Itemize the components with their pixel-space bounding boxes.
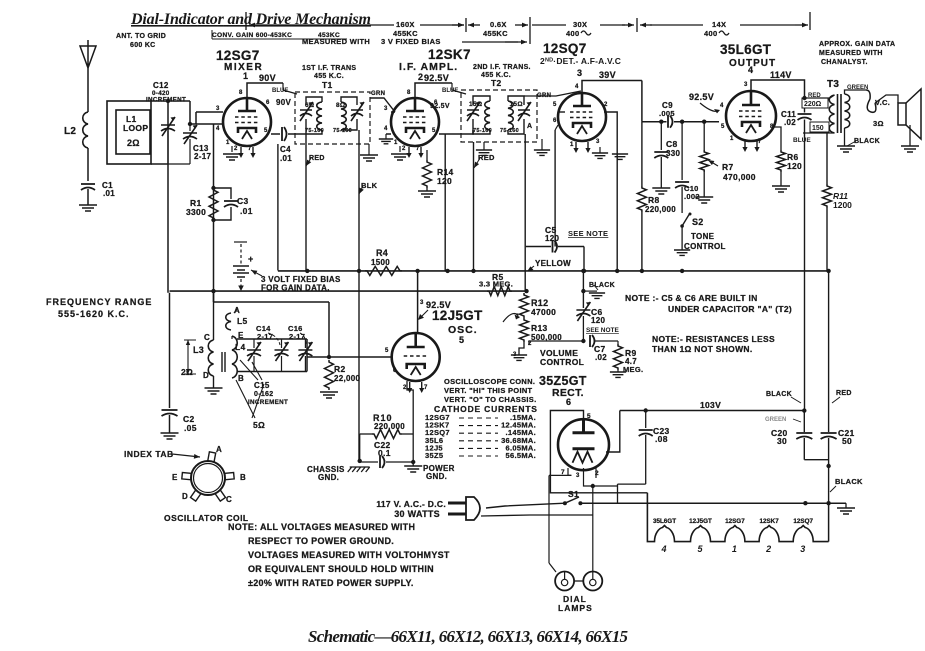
svg-text:12SK7: 12SK7 (759, 518, 779, 525)
junction (445, 269, 449, 273)
dim arrow left (249, 24, 262, 26)
wire to right lamp (592, 486, 594, 571)
wire 12J5 plate up (417, 271, 419, 333)
dim tick (636, 18, 638, 32)
junction C8 (659, 120, 663, 124)
wire loop bottom ext (168, 163, 190, 165)
svg-text:1: 1 (394, 140, 398, 146)
12SQ7 heater pins (576, 142, 588, 150)
svg-text:ANT. TO GRID: ANT. TO GRID (116, 33, 166, 40)
svg-text:.01: .01 (280, 154, 292, 163)
wire (617, 370, 619, 372)
arrow battery (251, 270, 262, 276)
svg-text:C4: C4 (280, 145, 291, 154)
svg-text:400: 400 (566, 29, 579, 38)
svg-text:T1: T1 (322, 80, 333, 90)
arrow red c21 (832, 397, 840, 403)
wire pin7 (568, 468, 571, 475)
wire (803, 411, 805, 432)
svg-text:D: D (182, 492, 188, 501)
svg-text:GREEN: GREEN (765, 417, 786, 423)
arrow R7 wiper (708, 160, 718, 166)
wire C13 bottom (189, 139, 191, 164)
wire C1 to ground (87, 189, 89, 205)
wire 12SG7 plate out (271, 133, 280, 135)
svg-text:SEE NOTE: SEE NOTE (586, 327, 620, 334)
wire (281, 339, 283, 348)
svg-text:3Ω: 3Ω (873, 119, 884, 128)
wire L3 to gnd (213, 376, 215, 388)
ground 12SQ7 heater (592, 153, 608, 158)
svg-text:3: 3 (384, 106, 388, 112)
svg-text:4: 4 (748, 65, 753, 75)
wire C23 down (645, 435, 647, 484)
wire black stub (583, 290, 597, 292)
svg-text:±20% WITH RATED POWER SUPPLY.: ±20% WITH RATED POWER SUPPLY. (248, 578, 414, 588)
ground T2 (476, 150, 492, 155)
wire R10 left down (359, 434, 361, 461)
resistor R9 (614, 344, 623, 370)
svg-text:120: 120 (787, 161, 802, 171)
junction (582, 269, 586, 273)
svg-text:330: 330 (666, 149, 680, 158)
capacitor C9 (668, 116, 673, 128)
svg-text:R4: R4 (376, 248, 388, 258)
core L3L4 (222, 352, 225, 372)
wire T1 prim bottom (310, 130, 322, 134)
tube 12SQ7 det (558, 93, 606, 141)
speaker (898, 103, 906, 125)
svg-text:4: 4 (216, 126, 220, 132)
svg-text:455KC: 455KC (483, 29, 508, 38)
dim tick tall (529, 17, 531, 44)
leader dashes (459, 447, 498, 449)
wire to left lamp (548, 475, 550, 563)
wire antenna to L2 (87, 68, 89, 112)
svg-text:0.6X: 0.6X (490, 20, 507, 29)
wire to C3 (214, 188, 232, 199)
svg-text:INCREMENT: INCREMENT (248, 399, 288, 406)
svg-text:5: 5 (264, 128, 268, 134)
wire C7 to R9 (595, 340, 618, 342)
svg-text:39V: 39V (599, 70, 616, 80)
coil L5 (226, 313, 231, 330)
svg-text:6: 6 (553, 118, 557, 124)
wire (599, 147, 601, 153)
svg-text:90V: 90V (276, 98, 291, 107)
wire T2 prim bottom (473, 119, 490, 134)
leader dashes (459, 440, 498, 442)
svg-text:2-17: 2-17 (194, 152, 211, 161)
label 150 box (810, 122, 829, 132)
arrow red2 (474, 158, 480, 168)
svg-text:C12: C12 (153, 81, 169, 90)
leader dashes (459, 425, 498, 427)
capacitor C11 (798, 114, 812, 120)
coil T3 primary (829, 95, 834, 133)
switch S2 (682, 213, 690, 226)
svg-text:220Ω: 220Ω (804, 101, 822, 108)
dim arrow (515, 24, 528, 26)
dimension line (532, 24, 566, 26)
wire (549, 563, 556, 572)
junction (826, 501, 830, 505)
ground C8 (652, 188, 670, 194)
heater socket string (647, 493, 828, 542)
junction (826, 269, 830, 273)
svg-text:SEE NOTE: SEE NOTE (568, 229, 608, 238)
junction (471, 269, 475, 273)
svg-text:30: 30 (777, 436, 787, 446)
svg-text:R13: R13 (531, 323, 548, 333)
wire R10 right down (412, 434, 414, 462)
wire C8 to gnd (660, 157, 662, 188)
svg-text:220,000: 220,000 (645, 205, 676, 214)
svg-text:A: A (216, 445, 222, 454)
svg-text:MEASURED WITH: MEASURED WITH (819, 50, 883, 57)
svg-text:NOTE:- RESISTANCES LESS: NOTE:- RESISTANCES LESS (652, 334, 775, 344)
wire (368, 144, 370, 155)
svg-text:L4: L4 (235, 342, 246, 352)
wire C3 bottom (214, 207, 232, 220)
capacitor C3 (224, 201, 238, 207)
svg-text:3: 3 (576, 473, 580, 479)
transformer T3 core (838, 94, 842, 133)
svg-text:3: 3 (577, 68, 582, 78)
svg-text:2: 2 (402, 146, 406, 152)
resistor R4 (365, 266, 402, 275)
svg-text:600 KC: 600 KC (130, 42, 156, 49)
wire heater right edge (828, 503, 830, 541)
wire to gnd (845, 503, 847, 508)
svg-text:12J5GT: 12J5GT (689, 518, 712, 525)
svg-text:VERT. "O" TO CHASSIS.: VERT. "O" TO CHASSIS. (444, 395, 536, 404)
variable capacitor osc (247, 342, 261, 361)
wire (167, 131, 169, 164)
wire T2 prim top (473, 96, 490, 105)
ground (612, 154, 628, 159)
wire down to R2 line (328, 302, 330, 357)
svg-text:OSCILLOSCOPE CONN.: OSCILLOSCOPE CONN. (444, 377, 535, 386)
wire pin4 (386, 133, 391, 135)
svg-text:OR EQUIVALENT SHOULD HOLD WITH: OR EQUIVALENT SHOULD HOLD WITHIN (248, 564, 434, 574)
dim arrow (795, 24, 808, 26)
capacitor C7 (590, 335, 595, 347)
wire (804, 459, 828, 461)
wire cord lower2 (530, 514, 593, 516)
svg-text:E: E (172, 473, 178, 482)
svg-text:150: 150 (812, 125, 824, 132)
wire C10 branch (681, 122, 683, 180)
svg-text:CONTROL: CONTROL (540, 357, 584, 367)
leader dashes (459, 417, 498, 419)
resistor R6 (777, 150, 786, 172)
arrow R13 wiper (503, 314, 518, 322)
svg-text:BLUE: BLUE (793, 137, 811, 144)
dim arrow (622, 24, 634, 26)
wire C21 line (828, 272, 830, 432)
pointer C16 (300, 333, 306, 345)
wire 12SK7 plate to T2 (439, 130, 473, 134)
wire L2 to C1 (87, 148, 89, 181)
dim arrow (468, 24, 480, 26)
svg-text:5Ω: 5Ω (253, 420, 265, 430)
ground 12SG7 heater (223, 154, 241, 160)
variable capacitor C14 (275, 342, 289, 361)
wire T1 sec bottom (341, 119, 357, 130)
svg-text:GND.: GND. (426, 472, 447, 481)
wire (213, 291, 215, 302)
wire T1 down RED (305, 119, 307, 271)
svg-text:TONE: TONE (691, 232, 715, 241)
capacitor C23 (639, 430, 653, 436)
svg-text:.01: .01 (103, 189, 115, 198)
wire C10 to S2 (681, 187, 683, 213)
svg-text:35Z5GT: 35Z5GT (539, 374, 587, 388)
coil L3 (208, 340, 213, 376)
wire pin5 (558, 111, 565, 113)
wire 12SQ7 pin2 down (604, 112, 617, 272)
svg-text:GRN: GRN (371, 91, 385, 97)
wire spk gnd (909, 125, 911, 146)
svg-text:3: 3 (216, 106, 220, 112)
svg-text:1: 1 (730, 136, 734, 142)
svg-text:6: 6 (393, 368, 397, 374)
wire 220ohm line down 2 (804, 120, 806, 411)
variable capacitor C16 (298, 342, 312, 361)
svg-text:CONTROL: CONTROL (684, 242, 726, 251)
coil T3 secondary (845, 94, 850, 128)
wire R13 to C7 (529, 341, 583, 345)
svg-text:7: 7 (416, 146, 420, 152)
svg-text:C3: C3 (237, 196, 248, 206)
plug body (466, 497, 480, 520)
ground R13 (511, 355, 527, 360)
svg-text:5: 5 (698, 544, 704, 554)
svg-text:C: C (226, 495, 232, 504)
wire (483, 142, 485, 150)
dial lamp 2 (583, 572, 602, 591)
svg-text:455 K.C.: 455 K.C. (314, 73, 344, 80)
wire (703, 122, 705, 150)
svg-text:35L6GT: 35L6GT (653, 518, 676, 525)
arrow index tab (172, 454, 200, 457)
svg-text:.005: .005 (659, 109, 675, 118)
svg-text:7: 7 (248, 146, 252, 152)
dim arrow (505, 41, 527, 43)
ground L3 (205, 388, 223, 394)
leader dashes (459, 455, 498, 457)
arrow to pin4 (700, 103, 718, 111)
svg-text:12SK7: 12SK7 (428, 47, 471, 62)
svg-text:I.F. AMPL.: I.F. AMPL. (399, 61, 458, 73)
tube 12SK7 IF amp (391, 98, 439, 146)
svg-text:T2: T2 (491, 78, 502, 88)
svg-text:30 WATTS: 30 WATTS (394, 509, 440, 519)
svg-text:LAMPS: LAMPS (558, 603, 593, 613)
junction (826, 464, 830, 468)
svg-text:INDEX TAB: INDEX TAB (124, 449, 174, 459)
junction (640, 269, 644, 273)
arrow green (793, 419, 801, 422)
arrow red (306, 158, 311, 166)
svg-text:12J5GT: 12J5GT (432, 308, 483, 323)
svg-text:75-160: 75-160 (333, 128, 352, 134)
svg-text:56.5MA.: 56.5MA. (506, 451, 536, 460)
wire pin1 (231, 146, 233, 152)
svg-text:5: 5 (459, 335, 464, 345)
wire (641, 122, 643, 186)
wire blue into T2 (452, 83, 466, 94)
wire 220ohm line down (804, 108, 806, 113)
wire (281, 356, 283, 372)
coil T2 secondary (508, 101, 513, 130)
ground C2 (161, 433, 179, 439)
wire S2 down (681, 226, 683, 250)
wire bus B- (278, 270, 829, 272)
svg-text:4: 4 (575, 84, 579, 90)
underline (212, 38, 347, 40)
ground 12SK7 pin4 (379, 139, 393, 144)
svg-text:120: 120 (591, 316, 605, 325)
dim arrow (452, 24, 464, 26)
wire (231, 336, 233, 339)
svg-text:2-17: 2-17 (257, 332, 273, 341)
wire (360, 461, 378, 463)
svg-text:2: 2 (418, 72, 423, 82)
wire box right (306, 339, 308, 372)
svg-text:75-160: 75-160 (500, 128, 519, 134)
wire 12SQ7 top to 39V (582, 81, 642, 94)
variable capacitor C12 (161, 117, 175, 136)
coil T1 secondary (341, 102, 346, 130)
svg-text:RED: RED (309, 155, 325, 162)
wire C8 branch (660, 122, 662, 150)
12J5 heater pins (410, 382, 422, 390)
wire R8 to bus (641, 212, 643, 272)
wire (253, 356, 255, 372)
svg-text:1: 1 (243, 71, 248, 81)
resistor R12 (520, 293, 529, 318)
wire 35L6 plate to T3 (751, 80, 805, 97)
wire 12SK7 plate to 92.5V (415, 83, 452, 98)
wire loop bottom (151, 163, 168, 165)
svg-text:UNDER CAPACITOR "A" (T2): UNDER CAPACITOR "A" (T2) (668, 304, 792, 314)
junction (803, 501, 807, 505)
svg-text:12SQ7: 12SQ7 (793, 518, 813, 525)
dimension line (262, 24, 394, 26)
op-amp U1 tube 12SG7 mixer (223, 98, 271, 146)
arrow 92.5v (420, 310, 428, 318)
plug prongs (448, 503, 466, 514)
junction (188, 122, 192, 126)
svg-text:75-160: 75-160 (305, 128, 324, 134)
svg-text:MEASURED WITH: MEASURED WITH (302, 37, 370, 46)
wire grid (391, 111, 395, 113)
wire (213, 302, 215, 340)
svg-text:8Ω: 8Ω (336, 102, 345, 109)
tube 12J5GT osc (392, 333, 440, 381)
loop L1 box (107, 101, 151, 164)
capacitor C10 (675, 182, 689, 188)
resistor R1 (209, 188, 218, 220)
wire T1 to 12SK7 grid (370, 98, 395, 112)
svg-text:2Ω: 2Ω (181, 367, 193, 377)
variable capacitor C13 (183, 125, 197, 144)
wire node B (642, 121, 667, 123)
svg-text:L3: L3 (193, 345, 204, 355)
callout lines C15 (240, 360, 264, 418)
svg-text:92.5V: 92.5V (424, 73, 449, 83)
wire 103V line (620, 410, 805, 412)
svg-text:GRN: GRN (537, 93, 551, 99)
wire pin3 (584, 468, 618, 486)
capacitor C8 (654, 152, 668, 158)
osc coil tab A (208, 452, 216, 463)
osc coil tab E (182, 473, 193, 480)
svg-text:.01: .01 (240, 206, 253, 216)
wire cathode (426, 150, 428, 160)
svg-text:CONV. GAIN 600-453KC: CONV. GAIN 600-453KC (212, 32, 292, 39)
wire C20 down (803, 438, 805, 460)
svg-text:2Ω: 2Ω (127, 138, 140, 148)
svg-text:.02: .02 (784, 118, 796, 127)
wire (304, 339, 306, 348)
wire T2 to 12SQ7 grid (524, 91, 581, 96)
svg-text:90V: 90V (259, 73, 276, 83)
wire T3 to R11 (826, 133, 828, 184)
wire T2 sec bottom (508, 119, 524, 134)
svg-text:35L6GT: 35L6GT (720, 42, 772, 57)
arrow black heater (830, 486, 836, 492)
svg-text:160X: 160X (396, 20, 415, 29)
svg-text:12SQ7: 12SQ7 (543, 41, 587, 56)
svg-text:3: 3 (596, 139, 600, 145)
voice coil (866, 90, 876, 112)
dimension line (420, 24, 464, 26)
ground speaker (901, 146, 919, 152)
wire (189, 124, 191, 131)
wire T1 prim top (306, 97, 322, 105)
wire R7 to gnd (703, 172, 705, 197)
junction chassis (358, 459, 362, 463)
svg-text:A: A (527, 123, 532, 130)
svg-text:.02: .02 (595, 353, 607, 362)
wire gang line to C2 (169, 293, 171, 408)
junction R2 (327, 355, 331, 359)
wire C6 branch (582, 271, 584, 308)
sine glyph (719, 31, 729, 35)
wire heater bus (580, 502, 846, 504)
junction (357, 269, 361, 273)
junction (211, 289, 215, 293)
svg-text:.05: .05 (184, 423, 197, 433)
svg-text:12SG7: 12SG7 (725, 518, 745, 525)
variable capacitor T1 trim1 (300, 102, 313, 121)
svg-text:GND.: GND. (318, 473, 339, 482)
svg-text:2ND I.F. TRANS.: 2ND I.F. TRANS. (473, 64, 531, 71)
svg-text:5: 5 (587, 413, 591, 420)
wire T3 sec gnd (844, 128, 846, 146)
svg-text:2: 2 (234, 146, 238, 152)
svg-text:75-160: 75-160 (473, 128, 492, 134)
dim arrows L3 (184, 340, 196, 374)
svg-text:1: 1 (732, 544, 737, 554)
wire T3 prim bottom (803, 132, 835, 134)
svg-text:92.5V: 92.5V (430, 103, 450, 110)
callout 5ohm (236, 380, 255, 418)
dimension line (600, 24, 625, 26)
